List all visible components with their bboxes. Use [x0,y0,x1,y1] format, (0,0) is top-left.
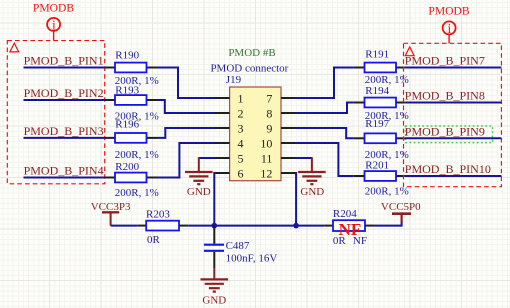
ground symbol below C487 [201,279,229,291]
selection highlight box around PMOD_B_PIN9 [406,126,493,143]
power symbol VCC3P3 [91,201,131,225]
label R204 designator [333,208,357,220]
wire R196 to J19 pin 3 [158,128,216,138]
resistor R203 pins [137,225,188,227]
capacitor C487 bottom pin [213,252,215,269]
svg-text:7: 7 [266,91,272,105]
resistor R201 pins [354,175,405,177]
svg-text:R203: R203 [146,208,170,220]
info marker circle-i (right) [443,21,456,43]
svg-text:PMOD_B_PIN8: PMOD_B_PIN8 [405,89,485,103]
svg-text:8: 8 [266,106,272,120]
svg-text:10: 10 [260,136,272,150]
svg-text:200R, 1%: 200R, 1% [365,186,409,198]
wire PMOD_B_PIN10 net [405,175,502,177]
junction node at pin12 drop [293,223,299,229]
wire R193 to J19 pin 2 [158,100,216,113]
label PMOD connector [210,63,288,75]
resistor R191 pins [354,67,405,69]
label R200 value [115,187,159,199]
label R197 designator [365,118,389,130]
label NF not-fitted marker [339,220,362,239]
wire R204 to VCC5P0 [375,221,402,226]
label R203 designator [146,208,170,220]
label PMOD #B [228,47,275,59]
resistor R191 [365,63,397,73]
svg-text:C487: C487 [226,240,250,252]
dashed harness boundary box (right) [404,43,502,186]
svg-text:R204: R204 [333,208,357,220]
svg-text:R194: R194 [365,85,389,97]
wire PMOD_B_PIN3 net [24,137,105,139]
port PMOD_B_PIN9 [405,124,485,138]
svg-text:R193: R193 [115,84,139,96]
port PMOD_B_PIN4 [24,164,104,178]
label R194 designator [365,85,389,97]
wire J19 pin 7 to R191 [295,68,354,99]
svg-text:i: i [52,17,56,32]
svg-text:3: 3 [238,121,244,135]
label C487 value [226,252,278,264]
wire J19 pin11 to ground [295,157,312,172]
info marker circle-i (left) [47,17,60,40]
power symbol VCC5P0 [381,201,421,223]
svg-text:R197: R197 [365,118,389,130]
ground symbol left of J19 [185,172,213,184]
svg-text:R191: R191 [365,48,389,60]
capacitor C487 [204,245,224,251]
resistor R196 [115,133,147,143]
label C487 designator [226,240,250,252]
resistor R197 pins [354,137,405,139]
harness entry triangle (right) [405,47,414,56]
wire PMOD_B_PIN9 net [405,137,502,139]
svg-text:PMOD connector: PMOD connector [210,63,288,75]
wire J19 pin5 to ground [199,157,216,172]
resistor R190 pins [105,67,158,69]
resistor R204 [333,220,365,231]
label R191 value [365,74,409,86]
label GND (left of J19) [187,186,211,198]
wire J19 pin12 to bottom rail [295,173,296,226]
wire PMOD_B_PIN8 net [405,102,502,104]
wire R190 to J19 pin 1 [158,68,216,99]
svg-text:PMODB: PMODB [428,5,470,18]
resistor R194 [365,98,397,108]
connector J19 designator label [226,74,242,86]
svg-text:R190: R190 [115,50,139,62]
port PMOD_B_PIN8 [405,89,485,103]
svg-text:GND: GND [300,186,324,198]
svg-text:11: 11 [261,151,273,165]
port PMOD_B_PIN2 [24,86,104,100]
label R194 value [365,110,409,122]
resistor R200 [115,173,147,183]
svg-text:100nF, 16V: 100nF, 16V [226,252,278,264]
resistor R200 pins [105,177,158,179]
harness connector PMODB (left) label [33,1,75,14]
svg-text:PMOD_B_PIN3: PMOD_B_PIN3 [24,124,104,138]
svg-text:PMOD_B_PIN9: PMOD_B_PIN9 [405,124,485,138]
svg-text:GND: GND [202,295,226,307]
wire PMOD_B_PIN4 net [24,177,105,179]
label R193 value [115,110,159,122]
svg-text:PMOD_B_PIN2: PMOD_B_PIN2 [24,86,104,100]
label R201 designator [365,160,389,172]
svg-text:VCC5P0: VCC5P0 [381,201,421,213]
svg-text:4: 4 [238,136,244,150]
wire J19 pin 10 to R201 [295,143,354,176]
svg-text:9: 9 [266,121,272,135]
svg-text:200R, 1%: 200R, 1% [115,187,159,199]
svg-text:PMOD_B_PIN7: PMOD_B_PIN7 [405,54,485,68]
dashed harness boundary box (left) [7,41,104,184]
label R190 designator [115,50,139,62]
capacitor C487 top pin [213,226,215,244]
label R200 designator [115,161,139,173]
label R197 value [365,149,409,161]
svg-text:0R: 0R [147,234,161,246]
svg-text:PMODB: PMODB [33,1,75,14]
resistor R194 pins [354,102,405,104]
svg-text:0R: 0R [333,235,347,247]
svg-text:5: 5 [238,151,244,165]
label R196 value [115,149,159,161]
svg-text:J19: J19 [226,74,242,86]
svg-text:i: i [448,21,452,36]
svg-text:R201: R201 [365,160,389,172]
ground symbol right of J19 [298,172,326,184]
wire bottom rail R203 to R204 [188,225,324,227]
label R201 value [365,186,409,198]
svg-text:GND: GND [187,186,211,198]
wire PMOD_B_PIN7 net [405,67,502,69]
svg-text:200R, 1%: 200R, 1% [115,149,159,161]
label R191 designator [365,48,389,60]
svg-text:NF: NF [353,235,367,247]
svg-text:1: 1 [238,91,244,105]
wire J19 pin 8 to R194 [295,103,354,114]
svg-text:2: 2 [238,106,244,120]
harness connector PMODB (right) label [428,5,470,18]
label R196 designator [115,119,139,131]
port PMOD_B_PIN10 [405,162,491,176]
harness entry triangle (left) [10,43,19,52]
svg-text:PMOD #B: PMOD #B [228,47,275,59]
resistor R201 [365,171,397,181]
port PMOD_B_PIN7 [405,54,485,68]
connector J19 body [230,87,281,181]
resistor R203 [146,221,179,231]
resistor R193 [115,95,147,105]
svg-text:R200: R200 [115,161,139,173]
wire VCC3P3 to R203 [111,225,138,227]
junction node at C487 [212,223,218,229]
resistor R190 [115,63,147,73]
resistor R197 [365,133,397,143]
svg-text:R196: R196 [115,119,139,131]
label R204 value [333,235,367,247]
port PMOD_B_PIN1 [24,54,104,68]
label R190 value [115,75,159,87]
svg-text:12: 12 [260,166,272,180]
resistor R193 pins [105,99,158,101]
ground stem below C487 [213,269,215,280]
label GND (right of J19) [300,186,324,198]
svg-text:PMOD_B_PIN10: PMOD_B_PIN10 [405,162,491,176]
connector J19 pin numbers [238,91,273,180]
svg-text:6: 6 [238,166,244,180]
resistor R204 pins [324,225,374,227]
svg-text:PMOD_B_PIN4: PMOD_B_PIN4 [24,164,104,178]
label R193 designator [115,84,139,96]
resistor R196 pins [105,137,158,139]
wire R200 to J19 pin 4 [158,143,216,178]
connector J19 pin stubs [215,98,297,173]
wire J19 pin 9 to R197 [295,128,354,138]
wire PMOD_B_PIN1 net [24,67,105,69]
wire J19 pin6 to bottom rail [214,173,215,226]
label R203 value [147,234,161,246]
svg-text:PMOD_B_PIN1: PMOD_B_PIN1 [24,54,104,68]
label GND (below C487) [202,295,226,307]
wire PMOD_B_PIN2 net [24,99,105,101]
port PMOD_B_PIN3 [24,124,104,138]
